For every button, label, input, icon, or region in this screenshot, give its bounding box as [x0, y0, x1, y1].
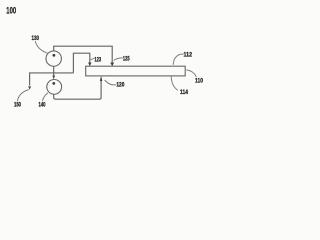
leader 120: [105, 80, 117, 85]
svg-text:125: 125: [123, 55, 130, 62]
wire pump130 top to line125: [54, 46, 112, 62]
pump circle 130: [46, 51, 61, 66]
svg-text:123: 123: [94, 56, 101, 63]
arrowhead into heat exchanger from line123: [88, 63, 91, 67]
svg-text:114: 114: [180, 89, 188, 96]
leader 123: [91, 58, 95, 60]
leader 130: [35, 41, 48, 53]
arrowhead into heat exchanger from line125: [110, 63, 114, 67]
svg-text:112: 112: [184, 51, 193, 58]
leader 150: [18, 90, 29, 101]
leader 140: [42, 93, 48, 101]
svg-text:140: 140: [39, 102, 46, 109]
leader 110: [186, 70, 196, 77]
leader 125: [114, 58, 123, 61]
pump 140 center dot: [52, 82, 55, 85]
wire branch line123: [73, 53, 89, 73]
svg-text:110: 110: [195, 78, 203, 85]
leader 112: [173, 54, 183, 65]
pump 130 center dot: [53, 54, 56, 57]
heat exchanger rectangle 110: [86, 66, 186, 76]
wire pump140 bottom to line120: [54, 81, 101, 100]
wire pump130 to pump140: [53, 66, 55, 75]
pump circle 140: [47, 80, 62, 95]
arrowhead down on line150: [28, 86, 31, 89]
svg-text:150: 150: [14, 102, 21, 109]
svg-text:120: 120: [116, 81, 124, 88]
svg-text:100: 100: [6, 5, 16, 15]
wire left return line150: [30, 73, 74, 86]
arrowhead up into heat exchanger from line120: [100, 76, 103, 81]
leader 114: [171, 76, 178, 90]
arrowhead pump130 to pump140: [52, 76, 55, 80]
